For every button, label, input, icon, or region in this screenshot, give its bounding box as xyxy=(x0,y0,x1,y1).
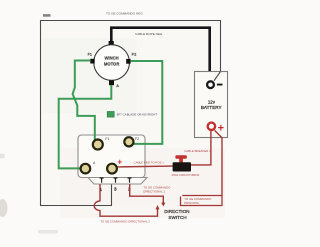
svg-text:MOTOR: MOTOR xyxy=(104,61,120,66)
connector pin 3 xyxy=(114,178,118,183)
motor M1 winch motor xyxy=(94,45,130,81)
motor top post xyxy=(109,41,114,45)
svg-text:PRINCIPAL: PRINCIPAL xyxy=(184,201,199,205)
arrowhead pin1 wire xyxy=(156,205,160,209)
battery positive terminal ring xyxy=(208,123,215,130)
wire: chassis negative loop (thin black rectangle) xyxy=(41,21,221,206)
solenoid terminal F2 xyxy=(124,137,133,146)
battery minus sign xyxy=(217,84,223,86)
svg-text:A: A xyxy=(116,83,119,88)
faint edge smudges xyxy=(0,199,8,217)
svg-text:BATTERY: BATTERY xyxy=(201,105,222,110)
svg-text:DIRECTION: DIRECTION xyxy=(164,209,189,214)
wire: diagonal from loop into battery negative terminal xyxy=(214,72,221,81)
svg-text:TO GE COMMANDO DIRECTIONAL 2: TO GE COMMANDO DIRECTIONAL 2 xyxy=(100,220,150,224)
svg-text:WINCH: WINCH xyxy=(104,56,118,61)
wire: red battery + second lead down to principal callout xyxy=(215,130,222,195)
svg-text:SWITCH: SWITCH xyxy=(168,215,186,220)
svg-text:CABLE ROPE NEG: CABLE ROPE NEG xyxy=(135,32,163,36)
svg-text:8FT CABLAGE OR KEYRIGHT: 8FT CABLAGE OR KEYRIGHT xyxy=(117,113,157,117)
svg-text:DIRECTIONAL 1: DIRECTIONAL 1 xyxy=(143,189,165,193)
wire: thick battery negative cable (motor top to battery -) xyxy=(111,28,209,81)
solenoid terminal A xyxy=(81,164,91,174)
arrowhead pin2 wire xyxy=(161,203,165,207)
svg-text:250A CIRCUIT BRKR: 250A CIRCUIT BRKR xyxy=(172,173,200,177)
solenoid terminal F1 xyxy=(93,140,103,150)
svg-text:F1: F1 xyxy=(105,137,109,141)
connector pin 2 xyxy=(128,178,132,183)
svg-text:+: + xyxy=(117,157,122,166)
svg-text:CABLE BREAKER 2: CABLE BREAKER 2 xyxy=(184,149,211,153)
wire: green motor F1 to solenoid F1 xyxy=(73,61,95,141)
battery negative terminal ring xyxy=(207,81,214,88)
motor left post F1 xyxy=(90,59,94,64)
battery B1 xyxy=(195,72,228,138)
wire: red breaker to solenoid + xyxy=(118,165,173,168)
motor bottom post A xyxy=(109,80,114,85)
wire: red battery + down to breaker line xyxy=(191,131,211,165)
svg-text:TO GE COMMANDO NEG: TO GE COMMANDO NEG xyxy=(106,12,143,16)
circuit breaker CB1 250A xyxy=(175,155,186,159)
solenoid terminal plus xyxy=(107,164,117,174)
solenoid U1 (contactor box) xyxy=(78,135,145,178)
callout box: TO GE COMMANDO PRINCIPAL xyxy=(181,196,223,206)
wire: red pin 2 to direction switch arrow xyxy=(130,184,164,203)
svg-text:F2: F2 xyxy=(132,51,137,56)
svg-text:3: 3 xyxy=(114,187,117,192)
connector pin 1 xyxy=(100,178,104,183)
svg-text:F1: F1 xyxy=(88,53,92,57)
wire: red pin 1 down with hop over black wire, to direction switch arrow xyxy=(94,184,157,216)
wire: green motor A to solenoid A xyxy=(59,85,112,168)
wire: green motor F2 to solenoid F2 xyxy=(131,61,163,144)
legend: green cable swatch xyxy=(107,112,114,118)
svg-text:CABLE RED TO POS +: CABLE RED TO POS + xyxy=(134,161,165,165)
svg-text:12v: 12v xyxy=(208,99,216,104)
faint artifact dash top-left xyxy=(43,14,51,17)
svg-text:F2: F2 xyxy=(135,137,139,141)
svg-text:+: + xyxy=(218,122,224,134)
solenoid connector trapezoid xyxy=(88,178,147,185)
motor right post F2 xyxy=(126,59,130,64)
